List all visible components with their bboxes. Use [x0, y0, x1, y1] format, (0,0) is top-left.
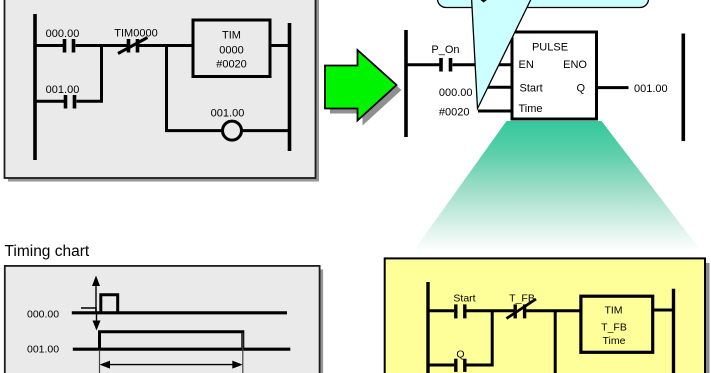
- green arrow: [325, 50, 397, 121]
- panel D right rail: [672, 289, 675, 373]
- wire Start rung right: [467, 309, 515, 312]
- svg-text:Start: Start: [453, 293, 475, 305]
- extension line left: [99, 350, 101, 373]
- wire branch 001.00 right: [77, 46, 102, 102]
- wire T_FB to TIM: [526, 309, 581, 312]
- panel B left rail: [404, 30, 408, 137]
- wire rung1 mid: [76, 44, 128, 47]
- svg-text:Timing chart: Timing chart: [5, 243, 90, 260]
- svg-text:Time: Time: [519, 103, 543, 115]
- trace 001.00 pulse: [100, 332, 243, 350]
- wire Start input: [476, 86, 512, 89]
- svg-text:000.00: 000.00: [46, 28, 80, 40]
- svg-text:0000: 0000: [219, 45, 243, 57]
- svg-text:000.00: 000.00: [439, 87, 473, 99]
- contact P_On: [441, 58, 451, 72]
- wire coil branch vertical: [167, 46, 223, 131]
- bubble text remnant: [481, 0, 488, 3]
- wire Q rung left: [427, 364, 455, 367]
- contact 000.00: [65, 39, 74, 53]
- rising edge up arrow: [92, 276, 100, 313]
- coil 001.00: [223, 121, 242, 140]
- extension line right: [242, 333, 244, 373]
- wire rung1 left: [34, 44, 64, 47]
- svg-text:EN: EN: [519, 59, 534, 71]
- timer box TIM: [193, 20, 270, 77]
- contact 001.00: [66, 95, 75, 109]
- down arrow: [93, 314, 101, 331]
- callout tail: [471, 0, 537, 109]
- contact TIM0000 (NC): [118, 38, 148, 54]
- wire TIM to right rail: [653, 309, 675, 312]
- panel D shadow: [389, 263, 709, 373]
- svg-text:TIM: TIM: [222, 30, 241, 42]
- panel D (yellow function block body): [385, 258, 705, 373]
- svg-text:Start: Start: [520, 83, 543, 95]
- wire Q rung right: [467, 364, 494, 367]
- svg-text:ENO: ENO: [563, 59, 587, 71]
- svg-text:Q: Q: [576, 83, 585, 95]
- svg-text:000.00: 000.00: [27, 309, 59, 321]
- wire branch 001.00 left: [34, 100, 65, 103]
- timer box TIM (T_FB): [581, 296, 653, 352]
- wire coil to right rail: [242, 129, 292, 132]
- svg-text:001.00: 001.00: [46, 84, 80, 96]
- svg-text:T_FB: T_FB: [509, 293, 535, 305]
- trace 000.00 step: [81, 308, 96, 313]
- beam to yellow panel: [414, 121, 702, 251]
- svg-text:Q: Q: [456, 349, 464, 361]
- function block PULSE: [512, 32, 597, 119]
- wire EN rung right: [453, 63, 513, 66]
- green arrow shadow: [330, 55, 402, 126]
- left rail: [33, 14, 37, 160]
- contact T_FB (NC): [507, 299, 537, 319]
- svg-text:PULSE: PULSE: [532, 42, 568, 54]
- contact Start: [456, 304, 465, 318]
- svg-text:P_On: P_On: [431, 44, 459, 56]
- contact Q: [456, 359, 465, 372]
- svg-text:TIM0000: TIM0000: [114, 28, 157, 40]
- wire Time input: [478, 110, 512, 113]
- svg-text:001.00: 001.00: [634, 83, 668, 95]
- svg-text:T_FB: T_FB: [601, 322, 627, 334]
- svg-text:001.00: 001.00: [27, 344, 59, 356]
- panel A shadow: [8, 0, 319, 182]
- panel D left rail: [426, 282, 429, 373]
- wire branch down: [554, 311, 557, 373]
- panel A (top-left ladder panel): [5, 0, 316, 178]
- trace 000.00 baseline: [72, 311, 287, 314]
- trace 000.00 pulse: [101, 295, 118, 313]
- svg-text:TIM: TIM: [604, 305, 622, 317]
- panel B right rail: [681, 34, 685, 142]
- right rail: [288, 23, 292, 151]
- wire Start rung left: [427, 309, 455, 312]
- callout bubble: [438, 0, 649, 8]
- panel C (timing chart panel): [5, 266, 320, 373]
- dimension arrow: [100, 361, 243, 369]
- wire TIM to right rail: [270, 44, 291, 47]
- wire EN rung left: [405, 63, 440, 66]
- svg-text:#0020: #0020: [439, 107, 470, 119]
- trace 001.00 baseline: [73, 348, 290, 351]
- svg-text:001.00: 001.00: [211, 108, 245, 120]
- svg-text:Time: Time: [603, 335, 626, 347]
- svg-text:#0020: #0020: [216, 59, 247, 71]
- wire Q output: [597, 86, 629, 89]
- wire rung1 right: [139, 44, 193, 47]
- panel C shadow: [8, 269, 323, 373]
- wire Q branch vertical: [491, 311, 494, 367]
